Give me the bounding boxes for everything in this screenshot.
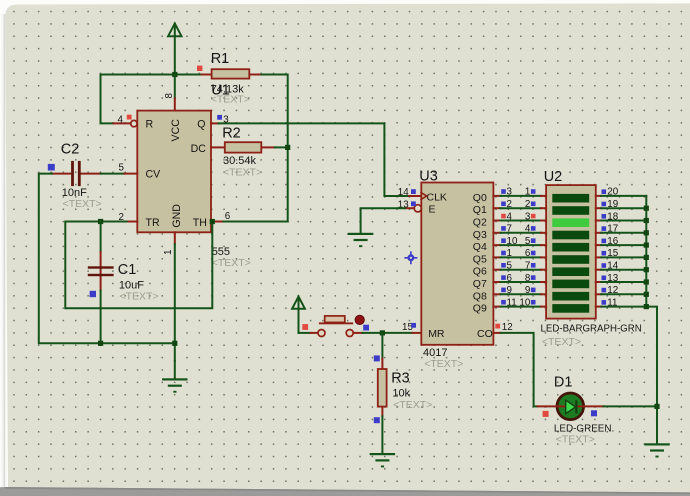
wire Q out to 4017 CLK xyxy=(219,123,410,196)
pin 8 stub (VCC) xyxy=(174,98,176,110)
svg-text:9: 9 xyxy=(507,285,512,296)
wire 4017 Q1 to bargraph pin 2 xyxy=(493,207,500,209)
node rail junction pin row xyxy=(644,292,649,297)
wire C2 right to CV xyxy=(101,173,125,175)
svg-text:MR: MR xyxy=(428,328,445,340)
pin number 16 (bargraph right) xyxy=(602,239,607,244)
svg-text:<TEXT>: <TEXT> xyxy=(212,257,251,269)
svg-text:CO: CO xyxy=(477,328,493,340)
pin number 18 (bargraph right) xyxy=(602,214,607,219)
pin number 6 (4017 Q7) xyxy=(501,275,506,280)
wire CO to LED D1 xyxy=(501,333,538,407)
pin number 4 (4017 Q2) xyxy=(501,214,506,219)
svg-text:10: 10 xyxy=(507,236,518,247)
marker red square R1 xyxy=(197,66,202,71)
pin number 5 (4017 Q6) xyxy=(501,263,506,268)
svg-text:Q0: Q0 xyxy=(473,192,487,204)
pin 14 stub (bargraph right) xyxy=(596,269,601,271)
svg-text:30.54k: 30.54k xyxy=(223,155,257,167)
pin 18 stub (bargraph right) xyxy=(596,220,601,222)
svg-text:3: 3 xyxy=(507,187,513,198)
pin 19 stub (bargraph right) xyxy=(596,207,601,209)
wire bargraph pin 12 to cathode rail xyxy=(601,293,646,295)
wire bargraph pin 20 to cathode rail xyxy=(601,195,646,197)
marker red square pin12 xyxy=(495,324,500,329)
marker blue square D1 right xyxy=(591,410,597,416)
svg-text:VCC: VCC xyxy=(170,119,182,142)
pin number 3 (4017 Q0) xyxy=(501,189,506,194)
wire 4017 Q7 to bargraph pin 8 xyxy=(493,281,500,283)
svg-text:12: 12 xyxy=(502,322,513,333)
LED bargraph U2 body xyxy=(546,185,596,319)
svg-text:Q3: Q3 xyxy=(473,229,487,241)
LED D1 xyxy=(538,393,604,420)
svg-text:14: 14 xyxy=(398,187,409,198)
pin 1 stub (GND) xyxy=(174,232,176,244)
pin number 13 (bargraph right) xyxy=(602,276,607,281)
node rail junction pin row xyxy=(644,243,649,248)
pin number 11 (4017 Q9) xyxy=(501,300,506,305)
pin 13 stub (bargraph right) xyxy=(596,281,601,283)
svg-text:Q8: Q8 xyxy=(473,290,487,302)
ground symbol (E pin) xyxy=(348,233,373,247)
wire R2 right to rail xyxy=(275,146,288,148)
wire 4017 Q4 to bargraph pin 5 xyxy=(493,244,500,246)
marker blue square pin13 xyxy=(411,201,416,206)
pin 14 clock arrow xyxy=(420,192,426,200)
power symbol VCC (top) xyxy=(168,24,181,75)
svg-text:3: 3 xyxy=(525,211,531,222)
4017 counter U3 body xyxy=(421,183,493,345)
ground symbol (under R3) xyxy=(370,453,395,467)
wire cathode rail xyxy=(646,196,657,444)
svg-text:4: 4 xyxy=(118,115,124,126)
node rail junction pin row xyxy=(644,206,649,211)
wire VCC node to R1 left xyxy=(175,74,202,76)
pin 12 stub (bargraph right) xyxy=(596,293,601,295)
svg-text:1: 1 xyxy=(525,187,530,198)
wire R3 to ground xyxy=(381,416,383,453)
svg-text:R: R xyxy=(146,119,154,131)
svg-text:7: 7 xyxy=(525,261,530,272)
svg-text:CLK: CLK xyxy=(427,191,447,203)
node D1/rail junction xyxy=(654,404,659,409)
pin 3 stub (Q) xyxy=(211,122,219,124)
svg-text:Q2: Q2 xyxy=(473,217,487,229)
wire bargraph pin 13 to cathode rail xyxy=(601,281,646,283)
svg-text:9: 9 xyxy=(525,285,530,296)
pin number 14 (bargraph right) xyxy=(602,263,607,268)
svg-text:<TEXT>: <TEXT> xyxy=(556,434,595,446)
node GND rail junction xyxy=(172,341,177,346)
wire bargraph pin 17 to cathode rail xyxy=(601,232,646,234)
svg-text:5: 5 xyxy=(525,236,531,247)
svg-text:6: 6 xyxy=(225,211,231,222)
wire R1 right to vertical rail xyxy=(262,75,288,222)
svg-text:Q1: Q1 xyxy=(473,204,487,216)
555 timer U1 body xyxy=(137,111,211,233)
svg-text:2: 2 xyxy=(525,199,530,210)
svg-text:Q9: Q9 xyxy=(473,303,487,315)
node button/R3/MR junction xyxy=(380,330,385,335)
wire GND pin down to ground rail xyxy=(174,244,176,361)
pin 5 stub (CV) xyxy=(124,173,137,175)
svg-text:Q5: Q5 xyxy=(473,253,487,265)
pin number 15 (bargraph right) xyxy=(602,251,607,256)
pin 6 stub (TH) xyxy=(211,221,224,223)
push button switch xyxy=(311,315,365,336)
svg-text:R1: R1 xyxy=(211,51,230,67)
wire bargraph pin 16 to cathode rail xyxy=(601,244,646,246)
svg-text:Q4: Q4 xyxy=(473,241,487,253)
wire C2 left down to ground rail xyxy=(39,174,175,344)
wire bargraph pin 15 to cathode rail xyxy=(601,256,646,258)
svg-text:<TEXT>: <TEXT> xyxy=(393,399,432,411)
wire D1 to rail xyxy=(604,405,658,407)
node rail junction pin row xyxy=(644,255,649,260)
svg-text:7: 7 xyxy=(507,224,512,235)
capacitor C1 xyxy=(88,222,114,344)
svg-text:8: 8 xyxy=(525,273,531,284)
svg-text:6: 6 xyxy=(525,248,531,259)
marker blue square pin14 xyxy=(411,189,416,194)
marker blue square C1 xyxy=(90,291,96,297)
wire 4017 Q3 to bargraph pin 4 xyxy=(493,232,500,234)
resistor R2 xyxy=(211,142,275,152)
svg-text:Q: Q xyxy=(197,119,205,131)
marker blue square button right xyxy=(363,325,369,331)
node rail junction pin row xyxy=(644,267,649,272)
svg-text:<TEXT>: <TEXT> xyxy=(542,336,581,348)
pin 15 stub (bargraph right) xyxy=(596,256,601,258)
svg-text:U3: U3 xyxy=(419,169,438,185)
svg-text:<TEXT>: <TEXT> xyxy=(424,358,463,370)
wire TH to rail xyxy=(224,221,288,223)
capacitor C2 xyxy=(52,161,101,186)
svg-text:10: 10 xyxy=(519,297,530,308)
svg-text:TH: TH xyxy=(193,217,207,229)
wire VCC node left to reset branch xyxy=(101,75,175,124)
pin number 2 (4017 Q1) xyxy=(501,202,506,207)
svg-text:<TEXT>: <TEXT> xyxy=(211,94,250,106)
node rail junction pin row xyxy=(644,279,649,284)
wire power to button xyxy=(299,332,311,334)
svg-text:<TEXT>: <TEXT> xyxy=(223,167,262,179)
node R2/rail junction xyxy=(285,145,290,150)
ground symbol (right rail) xyxy=(644,443,669,457)
marker blue square R3 bottom xyxy=(374,417,380,423)
svg-text:D1: D1 xyxy=(554,375,573,391)
wire 4017 Q5 to bargraph pin 6 xyxy=(493,256,500,258)
pin 13 bubble (E) xyxy=(414,205,421,212)
node C1 bottom junction xyxy=(98,341,103,346)
wire bargraph pin 11 to cathode rail xyxy=(601,306,646,308)
svg-text:LED-BARGRAPH-GRN: LED-BARGRAPH-GRN xyxy=(541,324,642,335)
svg-text:GND: GND xyxy=(171,204,183,228)
wire 4017 Q9 to bargraph pin 10 xyxy=(493,306,500,308)
wire 4017 Q0 to bargraph pin 1 xyxy=(493,195,500,197)
svg-text:8: 8 xyxy=(164,93,175,99)
svg-text:4: 4 xyxy=(525,224,531,235)
svg-text:Q7: Q7 xyxy=(473,278,487,290)
pin 4 stub (R) xyxy=(114,122,131,124)
svg-text:Q6: Q6 xyxy=(473,266,487,278)
wire bargraph pin 18 to cathode rail xyxy=(601,220,646,222)
svg-text:1: 1 xyxy=(163,250,174,255)
wire 4017 Q2 to bargraph pin 3 xyxy=(493,220,500,222)
node C1 top junction xyxy=(98,219,103,224)
svg-text:2: 2 xyxy=(507,199,512,210)
marker blue square pin3 xyxy=(217,115,222,120)
svg-text:5: 5 xyxy=(507,261,513,272)
svg-text:<TEXT>: <TEXT> xyxy=(63,198,102,210)
svg-text:10k: 10k xyxy=(392,388,410,400)
node rail junction pin row xyxy=(644,218,649,223)
pin 20 stub (bargraph right) xyxy=(596,195,601,197)
node VCC junction xyxy=(172,72,177,77)
marker blue square R3 top xyxy=(374,355,380,361)
origin marker (blue crosshair) xyxy=(404,251,417,264)
svg-text:4: 4 xyxy=(507,211,513,222)
svg-text:U2: U2 xyxy=(544,169,563,185)
wire E to ground xyxy=(361,208,405,233)
left edge shadow xyxy=(0,14,5,496)
wire bargraph pin 14 to cathode rail xyxy=(601,269,646,271)
marker red square button left xyxy=(302,324,308,330)
svg-text:1: 1 xyxy=(507,248,512,259)
ground symbol (under 555) xyxy=(162,361,187,393)
marker blue square pin15 xyxy=(411,323,416,328)
pin number 11 (bargraph right) xyxy=(602,300,607,305)
wire button to MR node xyxy=(363,332,413,334)
wire pin8 green segment xyxy=(174,75,176,99)
svg-text:<TEXT>: <TEXT> xyxy=(120,291,159,303)
pin number 7 (4017 Q3) xyxy=(501,226,506,231)
node rail junction pin row xyxy=(644,230,649,235)
svg-text:R2: R2 xyxy=(222,125,241,141)
pin number 1 (4017 Q5) xyxy=(501,251,506,256)
pin 15 stub (MR) xyxy=(413,332,422,334)
svg-text:TR: TR xyxy=(146,217,160,229)
svg-text:11: 11 xyxy=(507,297,517,308)
pin number 10 (4017 Q4) xyxy=(501,238,506,243)
pin 14 stub (CLK) xyxy=(409,195,420,197)
resistor R3 xyxy=(378,333,387,416)
pin number 20 (bargraph right) xyxy=(602,189,607,194)
svg-text:6: 6 xyxy=(507,273,513,284)
wire 4017 Q6 to bargraph pin 7 xyxy=(493,269,500,271)
pin 12 stub (CO) xyxy=(493,332,500,334)
svg-text:E: E xyxy=(429,204,436,216)
svg-text:R3: R3 xyxy=(391,371,410,387)
wire bargraph pin 19 to cathode rail xyxy=(601,207,646,209)
marker red square pin4 xyxy=(127,115,132,120)
pin number 17 (bargraph right) xyxy=(602,226,607,231)
svg-text:DC: DC xyxy=(191,143,207,155)
node TH junction xyxy=(210,219,215,224)
pin 4 bubble (R) xyxy=(131,120,137,126)
wire 4017 Q8 to bargraph pin 9 xyxy=(493,293,500,295)
pin 11 stub (bargraph right) xyxy=(596,306,601,308)
pin 2 stub (TR) xyxy=(127,221,138,223)
wire TR loop left xyxy=(65,222,212,309)
resistor R1 xyxy=(202,69,262,78)
pin 17 stub (bargraph right) xyxy=(596,232,601,234)
bottom shadow bar xyxy=(0,487,690,496)
marker red square D1 left xyxy=(543,411,549,417)
power symbol (button branch) xyxy=(292,297,305,333)
svg-text:C2: C2 xyxy=(61,142,80,158)
marker blue square C2 xyxy=(48,164,55,171)
pin number 12 (bargraph right) xyxy=(602,288,607,293)
svg-text:C1: C1 xyxy=(118,262,137,278)
pin 13 stub (E) xyxy=(405,207,414,209)
svg-text:CV: CV xyxy=(146,169,162,181)
pin number 9 (4017 Q8) xyxy=(501,288,506,293)
pin 16 stub (bargraph right) xyxy=(596,244,601,246)
pin number 19 (bargraph right) xyxy=(602,202,607,207)
node rail corner xyxy=(644,304,649,309)
svg-text:5: 5 xyxy=(119,163,125,174)
